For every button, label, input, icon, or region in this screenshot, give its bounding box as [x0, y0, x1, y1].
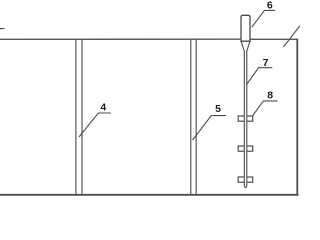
stirrer rod 7 (double line with rounded tip)	[244, 51, 247, 188]
motor taper to rod	[241, 41, 250, 51]
label 4 leader	[79, 113, 111, 137]
svg-text:8: 8	[267, 89, 273, 101]
tank bottom wall	[0, 194, 299, 196]
cut-off leader top-right	[284, 26, 300, 47]
tank right wall	[296, 39, 298, 196]
label 8 leader	[253, 101, 278, 116]
cut-off tick top-left	[0, 29, 5, 31]
svg-text:4: 4	[100, 102, 106, 114]
label 6 leader	[252, 10, 275, 27]
paddle tab 8b	[238, 146, 253, 151]
svg-text:7: 7	[263, 57, 269, 69]
divider 4 (left partition, double line)	[76, 40, 82, 194]
label 7 leader	[246, 68, 272, 85]
svg-text:6: 6	[267, 0, 273, 12]
svg-text:5: 5	[215, 103, 221, 115]
paddle tab 8c	[238, 177, 253, 182]
divider 5 (right partition, double line)	[191, 40, 196, 194]
tank top wall	[0, 38, 298, 40]
paddle tab 8a	[238, 116, 253, 121]
motor body 6 (rounded-top rectangle)	[241, 15, 250, 41]
label 5 leader	[193, 116, 226, 140]
